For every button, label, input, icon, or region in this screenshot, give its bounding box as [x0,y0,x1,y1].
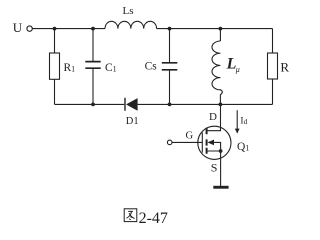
svg-text:U: U [13,20,23,35]
svg-text:Id: Id [240,116,247,126]
wire top rail left [32,28,105,30]
node dot bottom Cs [168,103,172,107]
transistor Q1 body arrow [207,140,214,146]
svg-text:R: R [280,60,289,75]
wire C1 bottom [92,69,94,105]
svg-text:G: G [186,131,194,142]
transistor Q1 body line [207,142,221,151]
wire bottom rail right [220,103,272,105]
wire C1 branch top [92,29,94,61]
wire R1 branch top [54,29,56,53]
node dot source junction [219,149,223,153]
svg-text:S: S [211,161,218,175]
ground [213,186,228,189]
node dot bottom Lmu [219,103,223,107]
inductor Ls [105,21,157,28]
node dot bottom C1 [91,103,95,107]
caption 图2-47 [124,209,168,227]
svg-text:2-47: 2-47 [139,210,168,227]
node dot top Lmu [219,27,223,31]
svg-text:D1: D1 [126,116,139,127]
inductor Lmu [212,41,222,95]
wire R bottom [272,79,274,104]
wire bottom rail mid [138,103,221,105]
node dot top C1 [91,27,95,31]
node dot top R1 [53,27,57,31]
wire Cs bottom [169,71,171,105]
diode D1 cathode bar [124,98,125,111]
svg-text:Ls: Ls [123,5,134,17]
svg-text:μ: μ [235,65,240,74]
wire R1 bottom [54,79,56,104]
wire Cs branch top [169,29,171,63]
transistor Q1 gate plate [201,133,203,153]
transistor Q1 channel segments [206,128,208,154]
svg-text:D: D [209,111,217,123]
node dot top Cs [168,27,172,31]
node U terminal [27,26,32,31]
svg-text:C1: C1 [105,62,117,74]
wire top rail right [157,28,273,30]
node G terminal [167,140,172,145]
wire bottom rail left [55,103,125,105]
svg-text:Cs: Cs [145,60,158,72]
capacitor C1 [85,62,100,69]
diode D1 [126,98,138,111]
transistor Q1 source lead [220,151,222,186]
svg-text:Q1: Q1 [237,141,249,153]
wire Lmu branch top [219,29,221,41]
op-amp circle of MOSFET body [198,126,231,159]
capacitor Cs [162,63,178,70]
wire right drop to R [272,29,274,53]
svg-text:R1: R1 [64,62,76,74]
resistor R1 [50,53,60,79]
wire Id current arrow [235,110,240,133]
wire Lmu bottom [219,95,221,105]
wire gate lead [172,141,202,143]
resistor R [268,53,278,79]
transistor Q1 drain lead [207,104,221,130]
